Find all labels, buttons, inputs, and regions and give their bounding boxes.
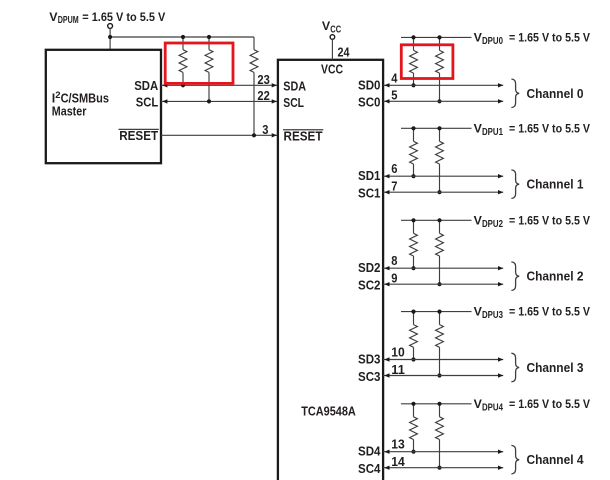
svg-text:SD4: SD4: [358, 445, 381, 459]
svg-text:DPU1: DPU1: [482, 127, 503, 138]
svg-text:10: 10: [391, 346, 405, 360]
svg-text:DPU3: DPU3: [482, 310, 503, 321]
svg-text:C/SMBus: C/SMBus: [61, 91, 109, 105]
svg-text:= 1.65 V to 5.5 V: = 1.65 V to 5.5 V: [509, 213, 591, 227]
svg-text:SD2: SD2: [358, 261, 381, 275]
svg-text:Channel 2: Channel 2: [527, 270, 584, 284]
svg-text:Channel 3: Channel 3: [527, 361, 584, 375]
svg-text:SCL: SCL: [283, 96, 304, 110]
svg-text:5: 5: [391, 89, 397, 103]
svg-text:SC4: SC4: [358, 462, 381, 476]
svg-text:SC0: SC0: [358, 96, 381, 110]
svg-text:DPU0: DPU0: [482, 36, 503, 47]
svg-text:DPU4: DPU4: [482, 402, 503, 413]
svg-text:4: 4: [391, 71, 397, 85]
svg-text:3: 3: [262, 123, 268, 137]
svg-text:SDA: SDA: [134, 79, 158, 93]
svg-text:11: 11: [391, 363, 405, 377]
svg-text:DPU2: DPU2: [482, 219, 503, 230]
svg-text:= 1.65 V to 5.5 V: = 1.65 V to 5.5 V: [509, 31, 591, 45]
svg-text:Channel 4: Channel 4: [527, 453, 584, 467]
svg-text:Channel 1: Channel 1: [527, 178, 584, 192]
svg-text:SD0: SD0: [358, 78, 381, 92]
svg-text:SC3: SC3: [358, 370, 381, 384]
svg-text:9: 9: [391, 272, 397, 286]
svg-text:SC1: SC1: [358, 187, 381, 201]
svg-text:24: 24: [338, 46, 350, 60]
svg-text:Master: Master: [52, 104, 87, 118]
svg-text:Channel 0: Channel 0: [527, 87, 584, 101]
svg-text:7: 7: [391, 180, 397, 194]
svg-text:SD1: SD1: [358, 169, 381, 183]
svg-text:22: 22: [257, 89, 269, 103]
svg-text:DPUM: DPUM: [58, 15, 79, 26]
svg-text:SD3: SD3: [358, 353, 381, 367]
svg-text:6: 6: [391, 162, 397, 176]
svg-text:23: 23: [257, 73, 269, 87]
svg-text:VCC: VCC: [321, 62, 343, 76]
svg-text:SDA: SDA: [283, 79, 306, 93]
svg-text:= 1.65 V to 5.5 V: = 1.65 V to 5.5 V: [509, 121, 591, 135]
svg-text:RESET: RESET: [119, 129, 158, 143]
svg-text:CC: CC: [330, 25, 341, 36]
svg-text:13: 13: [391, 438, 405, 452]
svg-text:SC2: SC2: [358, 279, 381, 293]
svg-text:= 1.65 V to 5.5 V: = 1.65 V to 5.5 V: [82, 10, 166, 24]
svg-text:= 1.65 V to 5.5 V: = 1.65 V to 5.5 V: [509, 305, 591, 319]
svg-text:RESET: RESET: [284, 129, 323, 143]
svg-text:8: 8: [391, 254, 397, 268]
svg-text:TCA9548A: TCA9548A: [301, 405, 356, 419]
svg-text:= 1.65 V to 5.5 V: = 1.65 V to 5.5 V: [509, 397, 591, 411]
svg-text:SCL: SCL: [136, 95, 159, 109]
svg-text:14: 14: [391, 455, 405, 469]
